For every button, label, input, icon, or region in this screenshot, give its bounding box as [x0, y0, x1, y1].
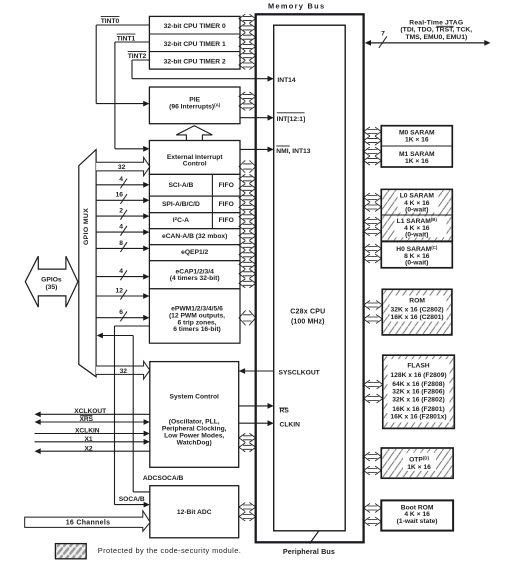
double arrows ADC to bus: [239, 503, 256, 512]
box ROM with code-security hatching: [382, 289, 452, 335]
svg-text:4: 4: [119, 224, 123, 231]
wire GPIO mux bus 12 at y=296.0: [96, 295, 144, 297]
svg-text:FIFO: FIFO: [219, 217, 234, 224]
wire RS reset from System Control to CPU, overbar label: [239, 405, 269, 407]
svg-text:ROM: ROM: [409, 298, 425, 305]
wire INT14 from timer2 to CPU: [132, 78, 269, 80]
svg-text:X1: X1: [84, 436, 92, 443]
svg-text:2: 2: [119, 208, 123, 215]
box OTP with code-security hatching: [381, 448, 453, 478]
svg-text:1K × 16: 1K × 16: [405, 158, 429, 165]
double arrow ePWM to bus: [239, 311, 256, 325]
svg-text:32: 32: [118, 164, 126, 171]
svg-text:ADCSOCA/B: ADCSOCA/B: [143, 475, 184, 482]
svg-text:(100 MHz): (100 MHz): [291, 318, 325, 325]
svg-text:32K x 16 (F2802): 32K x 16 (F2802): [392, 396, 444, 403]
double arrows timers to memory bus: [239, 14, 256, 23]
double arrows System Control to bus: [239, 434, 256, 443]
svg-text:Control: Control: [183, 160, 207, 167]
double arrows bus to Boot ROM: [364, 504, 382, 513]
svg-text:FIFO: FIFO: [219, 201, 234, 208]
wire GPIO mux bus 4 at y=276.6: [96, 276, 144, 278]
svg-text:L0 SARAM: L0 SARAM: [400, 193, 435, 200]
legend code-security hatched box: [55, 544, 86, 559]
wire NMI,INT13 from External Interrupt Control to CPU: [240, 148, 269, 150]
svg-text:(4 timers 32-bit): (4 timers 32-bit): [170, 275, 220, 282]
box eQEP1/2: [149, 174, 240, 196]
wire XCLKOUT output: [40, 413, 150, 415]
svg-text:System Control: System Control: [169, 394, 219, 401]
outer memory/peripheral bus box: [256, 14, 364, 542]
svg-text:TINT0: TINT0: [101, 18, 120, 25]
svg-text:128K x 16 (F2809): 128K x 16 (F2809): [390, 372, 446, 379]
fat bus arrow 32 to External Interrupt Control: [96, 157, 150, 175]
svg-text:(1-wait state): (1-wait state): [397, 518, 438, 525]
svg-text:(96 Interrupts)(A): (96 Interrupts)(A): [169, 102, 221, 110]
svg-text:6 timers 16-bit): 6 timers 16-bit): [173, 326, 221, 333]
svg-text:X2: X2: [84, 446, 92, 453]
svg-text:eCAN-A/B (32 mbox): eCAN-A/B (32 mbox): [162, 233, 227, 240]
wire X2 output: [40, 450, 150, 452]
svg-text:(TDI, TDO, TRST, TCK,: (TDI, TDO, TRST, TCK,: [400, 27, 472, 34]
svg-text:32-bit CPU TIMER 1: 32-bit CPU TIMER 1: [164, 41, 226, 48]
svg-text:6: 6: [119, 309, 123, 316]
svg-text:32K x 16 (F2806): 32K x 16 (F2806): [392, 389, 444, 396]
svg-text:XCLKOUT: XCLKOUT: [74, 408, 106, 415]
svg-text:SYSCLKOUT: SYSCLKOUT: [279, 370, 321, 377]
svg-text:8: 8: [119, 240, 123, 247]
block arrow from External Interrupt Control up into PIE: [176, 126, 212, 141]
GPIO MUX parallelogram: [79, 150, 96, 377]
wire ADCSOCA/B feedback to GPIO MUX: [102, 335, 134, 337]
wire Real-Time JTAG double arrow with width 7 slash: [370, 42, 486, 44]
double arrows peripherals to bus: [239, 175, 256, 184]
double arrows bus to L0/L1/H0 SARAM: [364, 193, 382, 202]
double arrows bus to M0/M1 SARAM: [364, 127, 382, 136]
svg-text:SOCA/B: SOCA/B: [119, 496, 145, 503]
wire XRS bidirectional with overbar: [40, 421, 145, 423]
wire SOCA/B into ADC: [115, 504, 145, 506]
svg-text:1K × 16: 1K × 16: [407, 464, 431, 471]
double arrows bus to FLASH: [364, 380, 383, 389]
box Boot ROM: [381, 500, 453, 530]
wire CLKIN from System Control to CPU: [239, 422, 269, 424]
svg-text:12: 12: [116, 287, 124, 294]
svg-text:CLKIN: CLKIN: [280, 421, 301, 428]
svg-text:4: 4: [119, 268, 123, 275]
svg-text:TINT1: TINT1: [117, 35, 136, 42]
wire GPIO mux bus 4 at y=232.1: [96, 231, 144, 233]
svg-text:32-bit CPU TIMER 2: 32-bit CPU TIMER 2: [164, 58, 226, 65]
svg-text:Peripheral Bus: Peripheral Bus: [283, 547, 335, 556]
box M0/M1 SARAM: [381, 126, 452, 167]
bus slash between peripheral bus and CPU box bottoms: [310, 529, 320, 543]
svg-text:RS: RS: [280, 408, 290, 415]
fat bus arrow 32 to System Control: [96, 361, 150, 379]
box 12-Bit ADC: [150, 486, 239, 538]
wire GPIO mux bus 16 at y=200.3: [96, 199, 144, 201]
svg-text:eQEP1/2: eQEP1/2: [181, 249, 208, 256]
svg-text:TINT2: TINT2: [128, 53, 147, 60]
wire XCLKIN input: [35, 433, 145, 435]
svg-text:16: 16: [116, 192, 124, 199]
box eCAP1/2/3/4: [149, 261, 240, 289]
svg-text:64K x 16 (F2808): 64K x 16 (F2808): [392, 381, 444, 388]
double arrows PIE to bus: [239, 92, 256, 101]
svg-text:(0-wait): (0-wait): [405, 259, 428, 266]
wire SYSCLKOUT from CPU to System Control: [239, 370, 274, 372]
svg-text:SCI-A/B: SCI-A/B: [168, 182, 193, 189]
svg-text:XRS: XRS: [80, 416, 94, 423]
svg-text:4: 4: [119, 176, 123, 183]
wire INT[12:1] from PIE to CPU: [240, 117, 269, 119]
box FLASH with code-security hatching: [383, 355, 455, 428]
svg-text:FIFO: FIFO: [219, 182, 234, 189]
svg-text:32: 32: [120, 368, 128, 375]
box L0/L1/H0 SARAM with code-security hatching on L0 and L1: [381, 189, 452, 267]
svg-text:(0-wait): (0-wait): [405, 207, 428, 214]
svg-text:16K x 16 (F2801): 16K x 16 (F2801): [392, 406, 444, 413]
double arrow External Interrupt Control to bus: [239, 161, 256, 173]
box 32-bit CPU TIMER 0/1/2: [149, 16, 240, 69]
box External Interrupt Control: [149, 141, 240, 175]
wire trip-zone input to ePWM from GPIO mux area: [115, 325, 150, 327]
box ePWM1/2/3/4/5/6: [149, 289, 240, 343]
svg-text:XCLKIN: XCLKIN: [75, 427, 100, 434]
svg-text:16K x 16 (C2801): 16K x 16 (C2801): [391, 314, 444, 321]
wire GPIO mux bus 2 at y=216.1: [96, 215, 144, 217]
svg-text:NMI, INT13: NMI, INT13: [276, 148, 310, 155]
box PIE (96 Interrupts): [149, 87, 240, 124]
C28x CPU box: [274, 25, 346, 531]
svg-text:C28x CPU: C28x CPU: [290, 308, 325, 315]
wire GPIO mux bus 4 at y=184.8: [96, 184, 144, 186]
svg-text:WatchDog): WatchDog): [177, 439, 212, 446]
svg-text:GPIO MUX: GPIO MUX: [83, 208, 90, 245]
svg-text:INT14: INT14: [277, 77, 295, 84]
16 Channels input bus arrow into ADC: [25, 511, 151, 532]
svg-text:TMS, EMU0, EMU1): TMS, EMU0, EMU1): [405, 34, 467, 41]
svg-text:16 Channels: 16 Channels: [66, 519, 111, 526]
svg-text:16K x 16 (F2801x): 16K x 16 (F2801x): [390, 414, 446, 421]
wire GPIO mux bus 8 at y=248.4: [96, 247, 144, 249]
GPIOs (35) double block arrow: [25, 256, 78, 307]
svg-text:(0-wait): (0-wait): [405, 231, 428, 238]
svg-text:Memory Bus: Memory Bus: [268, 2, 325, 11]
box System Control: [150, 362, 239, 468]
svg-text:SPI-A/B/C/D: SPI-A/B/C/D: [162, 201, 200, 208]
svg-text:32K x 16 (C2802): 32K x 16 (C2802): [391, 306, 444, 313]
double arrows bus to ROM: [364, 301, 383, 310]
svg-text:32-bit CPU TIMER 0: 32-bit CPU TIMER 0: [164, 23, 226, 30]
wire X1 input: [35, 441, 145, 443]
svg-text:Real-Time JTAG: Real-Time JTAG: [409, 19, 463, 26]
svg-text:GPIOs: GPIOs: [41, 276, 62, 283]
svg-text:7: 7: [381, 31, 385, 38]
double arrows bus to OTP: [364, 452, 382, 461]
svg-text:FLASH: FLASH: [407, 363, 429, 370]
svg-text:1K × 16: 1K × 16: [405, 137, 429, 144]
wire GPIO mux bus 6 at y=317.7: [96, 317, 144, 319]
svg-text:12-Bit ADC: 12-Bit ADC: [177, 509, 212, 516]
svg-text:INT[12:1]: INT[12:1]: [277, 116, 306, 123]
svg-text:(35): (35): [45, 284, 57, 291]
svg-text:Protected by the code-security: Protected by the code-security module.: [98, 546, 241, 555]
